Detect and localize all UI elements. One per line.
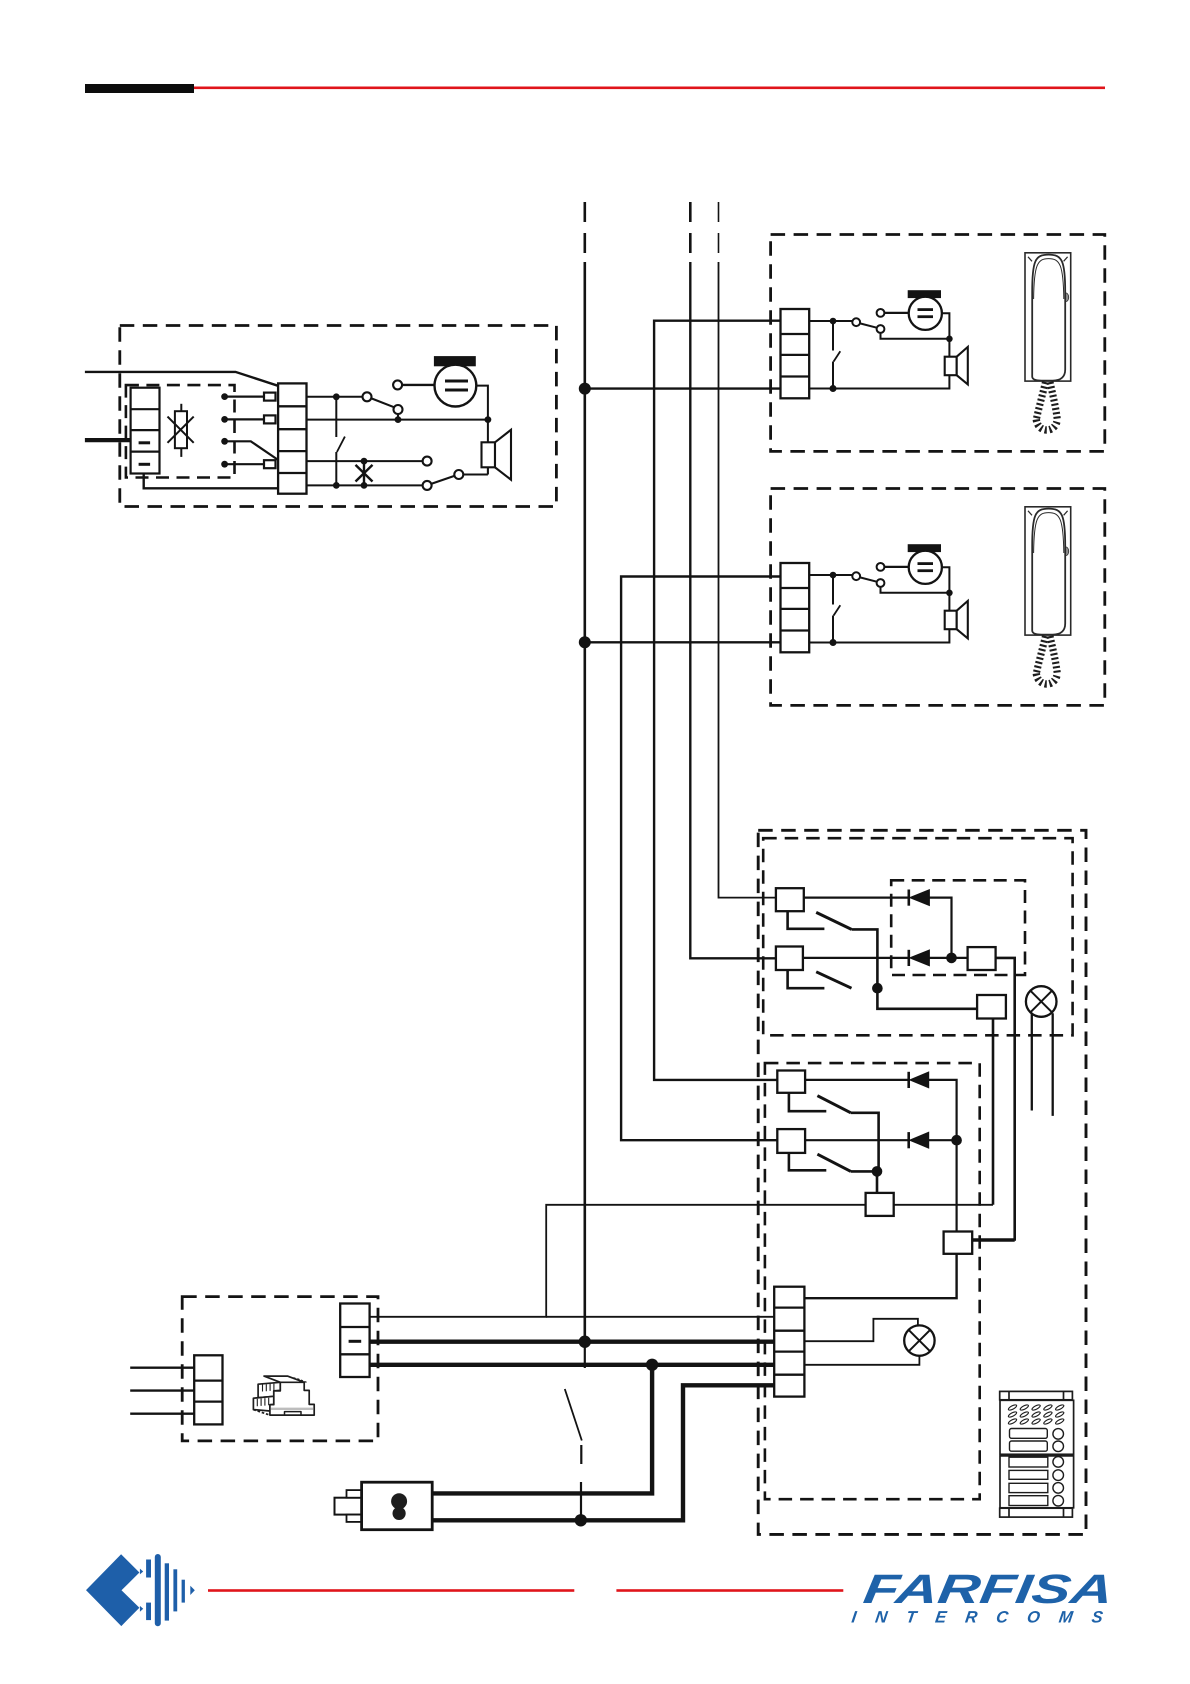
junction dots station bbox=[872, 1135, 962, 1177]
terminal sqD bbox=[977, 995, 1006, 1019]
svg-text:FARFISA: FARFISA bbox=[861, 1566, 1116, 1612]
footer red rule left bbox=[208, 1589, 574, 1592]
panel upper module bbox=[1000, 1400, 1074, 1454]
header red rule bbox=[194, 87, 1105, 90]
dots column bbox=[221, 393, 228, 467]
riser switch blade bbox=[565, 1389, 582, 1441]
diode1 output wire bbox=[929, 898, 951, 958]
diode1 bbox=[909, 890, 930, 906]
door panel bbox=[1000, 1391, 1074, 1517]
junction to sqD2 bbox=[876, 1171, 879, 1193]
intercom unit 2 bbox=[771, 489, 1105, 706]
terminal sqA2 bbox=[777, 1071, 805, 1093]
buzzer bbox=[434, 356, 476, 406]
unit outer dashed box bbox=[120, 326, 557, 507]
farfisa wordmark bbox=[861, 1566, 1116, 1612]
wire handset1 term4 to riser bbox=[585, 387, 781, 389]
contact A blade bbox=[816, 912, 851, 929]
wire sqB2 to diode bbox=[805, 1139, 909, 1141]
thick bus 1 bbox=[370, 1339, 775, 1343]
entry wire thick bbox=[85, 438, 131, 442]
terminal sqA bbox=[776, 888, 804, 911]
row4 wire bbox=[307, 460, 423, 462]
contact A common bbox=[788, 911, 825, 929]
name plates upper bbox=[1010, 1429, 1064, 1452]
aci logo diamond bbox=[86, 1554, 139, 1626]
module tier2 face bbox=[253, 1396, 273, 1411]
contact A2 common bbox=[789, 1093, 826, 1111]
thick bus 2 bbox=[370, 1363, 775, 1367]
unit inner dashed box bbox=[126, 385, 235, 477]
mains line 3 bbox=[130, 1412, 194, 1414]
hook switch vertical bbox=[336, 397, 345, 486]
relay1 dashed box bbox=[763, 838, 1072, 1035]
thin net psu row1 long wire bbox=[370, 1205, 993, 1317]
wire handset2 term4 to riser bbox=[585, 641, 781, 643]
wire handset1 term1 to relay2 sqA bbox=[654, 321, 780, 1080]
contact B common bbox=[788, 970, 825, 988]
contact B2 blade bbox=[817, 1154, 850, 1171]
speaker bbox=[482, 430, 512, 480]
schematic dots bbox=[333, 393, 491, 488]
contact A out bbox=[852, 929, 878, 988]
riser line 2 bbox=[690, 262, 776, 958]
wire sqB to diode2 bbox=[803, 957, 909, 959]
riser line 2 dashed top bbox=[689, 202, 692, 262]
psu input strip bbox=[194, 1355, 222, 1424]
wire sqA to diode1 bbox=[804, 896, 909, 898]
blade to junction wire bbox=[851, 1170, 877, 1173]
diode3 bbox=[909, 1072, 929, 1088]
contact A2 out bbox=[851, 1113, 879, 1172]
module roof face bbox=[264, 1376, 304, 1382]
sqE right wire bbox=[972, 1239, 1015, 1242]
header black bar bbox=[85, 84, 194, 93]
station wires bbox=[789, 1080, 1015, 1298]
junction dots relay1 bbox=[872, 953, 957, 994]
aci logo stripes bbox=[146, 1554, 195, 1626]
lock bottom wire bbox=[432, 1385, 774, 1520]
name plates lower bbox=[1009, 1457, 1063, 1506]
crossed-out symbol bbox=[356, 461, 373, 485]
contact B blade bbox=[816, 972, 851, 988]
mains line 2 bbox=[130, 1389, 194, 1391]
row2 wire bbox=[307, 419, 488, 421]
sqC output wire bbox=[972, 958, 1015, 1240]
junction dot riser/handset2 bbox=[579, 636, 591, 648]
diode dashed sub-box bbox=[891, 880, 1025, 975]
contact B2 common bbox=[789, 1153, 826, 1170]
junction to sqD wire bbox=[877, 988, 977, 1009]
junction dot lock bottom wire bbox=[575, 1514, 587, 1526]
panel top bar bbox=[1000, 1391, 1073, 1399]
diode4 output wire bbox=[929, 1139, 957, 1141]
lock body bbox=[362, 1482, 433, 1530]
psu dashed box bbox=[182, 1297, 378, 1441]
entry wire thin bbox=[85, 372, 278, 386]
svg-text:INTERCOMS: INTERCOMS bbox=[850, 1608, 1123, 1627]
thin net psu to door block row2 bbox=[546, 1316, 774, 1318]
psu output strip bbox=[340, 1304, 369, 1378]
contact A2 blade bbox=[817, 1096, 850, 1113]
intercom unit 1 bbox=[771, 235, 1105, 452]
terminal sqB2 bbox=[777, 1129, 805, 1153]
riser line 3 bbox=[719, 262, 776, 898]
row1 wire bbox=[307, 396, 363, 398]
contact circles row1 bbox=[363, 380, 435, 419]
riser line 1 bbox=[583, 262, 586, 1342]
panel bottom bar bbox=[1000, 1508, 1073, 1517]
sqE feed wire bbox=[804, 1254, 956, 1298]
intercoms wordmark bbox=[850, 1608, 1123, 1627]
base stripe bbox=[271, 1408, 313, 1410]
terminal sqB bbox=[776, 947, 803, 971]
lock bolt upper bbox=[347, 1490, 362, 1498]
varistor bbox=[168, 404, 194, 457]
relay1 wires bbox=[788, 898, 1015, 1240]
junction dot bus2/lock bbox=[646, 1359, 658, 1371]
psu transformer drawing bbox=[253, 1376, 314, 1415]
terminal strip bbox=[131, 388, 160, 474]
outer system dashed box bbox=[758, 830, 1086, 1534]
terminal sqC bbox=[968, 947, 996, 970]
module tier1 face bbox=[258, 1382, 280, 1397]
riser switch segment upper bbox=[584, 1347, 586, 1368]
lock bolt lower bbox=[347, 1515, 362, 1522]
sqD down wire bbox=[992, 1019, 995, 1205]
keyhole bbox=[391, 1493, 407, 1520]
tier2 bottom slant bbox=[253, 1410, 270, 1416]
riser line 3 dashed top bbox=[718, 202, 720, 262]
diode2 bbox=[909, 950, 930, 966]
row5 wire bbox=[307, 484, 423, 486]
riser switch segment lower bbox=[580, 1445, 582, 1464]
pin wires to block bbox=[225, 393, 278, 469]
row4 contact circle bbox=[423, 457, 432, 466]
terminal block column bbox=[278, 383, 306, 493]
diode4 bbox=[909, 1132, 929, 1148]
station lamp bbox=[904, 1325, 934, 1355]
speaker grille slots bbox=[1008, 1404, 1065, 1425]
mains line 1 bbox=[130, 1366, 194, 1368]
aci logo tip bottom bbox=[140, 1606, 143, 1612]
wire sqA2 to diode bbox=[805, 1079, 909, 1081]
aci logo tip top bbox=[140, 1569, 143, 1575]
footer red rule right bbox=[616, 1589, 843, 1592]
junction dot riser/bus1 bbox=[579, 1336, 591, 1348]
module main face bbox=[270, 1382, 314, 1415]
door terminal block bbox=[774, 1287, 804, 1397]
panel divider bbox=[1000, 1454, 1074, 1456]
lock top wire bbox=[432, 1365, 652, 1494]
panel lower module bbox=[1000, 1456, 1074, 1508]
terminal sqD2 bbox=[866, 1193, 894, 1216]
diode2 to sqC wire bbox=[929, 957, 967, 959]
wire handset2 term1 to relay2 sqB bbox=[621, 577, 780, 1141]
station dashed box bbox=[765, 1063, 980, 1499]
row5 contact bbox=[423, 467, 488, 490]
tier2 pins bbox=[257, 1398, 268, 1406]
base notch bbox=[285, 1412, 302, 1416]
buzzer to speaker wire bbox=[476, 386, 488, 443]
bottom loop wire bbox=[144, 474, 278, 489]
lamp wires bbox=[804, 1319, 919, 1365]
riser line 1 dashed top bbox=[583, 202, 586, 262]
lock bolt middle bbox=[335, 1498, 362, 1515]
module roof hatch bbox=[290, 1377, 308, 1383]
lamp relay1 bbox=[1026, 986, 1057, 1116]
terminal sqE bbox=[944, 1232, 973, 1254]
junction dot riser/handset1 bbox=[579, 383, 591, 395]
tier1 pins bbox=[263, 1384, 274, 1392]
diode3 output wire bbox=[929, 1080, 957, 1232]
